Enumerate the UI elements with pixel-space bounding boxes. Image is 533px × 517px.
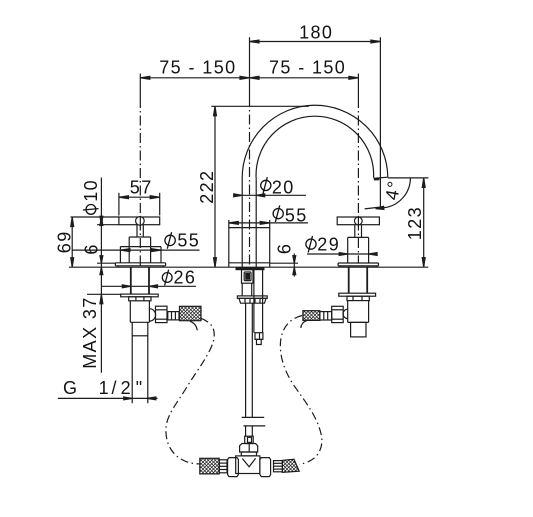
svg-text:": " [136, 378, 142, 398]
left escutcheon [120, 247, 161, 263]
label phi10 [83, 205, 99, 215]
svg-text:/: / [111, 378, 116, 398]
svg-text:1: 1 [99, 378, 109, 398]
dim 75-150 line [140, 76, 358, 79]
dim phi20 [234, 194, 306, 197]
extension line 180 right [379, 37, 381, 209]
svg-text:4°: 4° [382, 178, 405, 201]
left dims vertical line [100, 178, 102, 373]
right hose braid [303, 311, 320, 321]
dim 180 line [250, 40, 381, 43]
extension line left handle [139, 74, 141, 99]
left under body [130, 301, 149, 323]
right hose ferrule [320, 312, 332, 320]
svg-text:26: 26 [174, 267, 197, 287]
dim 6 right [270, 254, 298, 277]
T top nut [240, 444, 258, 453]
svg-text:2: 2 [121, 378, 131, 398]
left lock flange [121, 294, 159, 297]
deck line [69, 266, 428, 268]
left handle stem [136, 225, 138, 237]
spout outer arc [242, 105, 388, 179]
right handle bar [337, 217, 379, 225]
dim 57 [119, 193, 160, 216]
svg-text:55: 55 [285, 206, 308, 226]
svg-text:10: 10 [81, 179, 101, 202]
right hub centerline [357, 216, 359, 226]
dim G 1/2 [58, 397, 158, 400]
label phi29 [306, 236, 316, 253]
dim 222 [211, 106, 308, 267]
left hose ferrule [168, 312, 179, 320]
left inlet pipe [132, 322, 148, 403]
T body [236, 456, 260, 474]
dim phi10 extension lines [71, 216, 119, 225]
svg-text:6: 6 [275, 243, 295, 254]
dim 37 max [87, 294, 121, 304]
centerline left handle [139, 98, 141, 267]
right bottom stub [351, 322, 366, 337]
right handle hub [354, 217, 362, 225]
svg-text:75 - 150: 75 - 150 [159, 58, 236, 78]
dim 6 left [97, 256, 115, 275]
spout flange B [239, 298, 266, 303]
left base plate [115, 263, 165, 267]
right hose bend tick [301, 321, 307, 328]
left hose braid [180, 306, 202, 320]
label phi55 spout [273, 205, 283, 222]
spout riser tube [241, 179, 243, 267]
bottom right braid [282, 459, 299, 472]
dim phi26 [101, 285, 196, 288]
spout outlet face [373, 177, 387, 178]
centerline spout [249, 97, 251, 267]
spout supply tube [246, 303, 253, 436]
svg-text:6: 6 [82, 243, 102, 254]
spout side channel [254, 270, 263, 333]
T collar [241, 452, 256, 456]
right lock flange [339, 293, 376, 296]
spout outlet tick [374, 178, 379, 180]
left hose nut [156, 306, 168, 322]
right hose curve [280, 316, 322, 465]
dim 69 [71, 217, 74, 267]
svg-text:69: 69 [54, 230, 74, 253]
spout gasket [236, 268, 264, 270]
extension line spout center top [249, 37, 251, 97]
right valve body [348, 237, 369, 263]
centerline right handle [357, 98, 359, 263]
left outlet boss [149, 309, 155, 321]
T left nut [228, 458, 239, 477]
label phi20 [261, 177, 271, 194]
label phi55 left [165, 232, 175, 249]
right lock nut [347, 296, 369, 300]
svg-text:20: 20 [272, 178, 295, 198]
right hose nut [332, 306, 344, 322]
T right rings [274, 461, 283, 472]
svg-text:MAX 37: MAX 37 [80, 296, 100, 368]
left handle hub [136, 217, 145, 226]
svg-text:29: 29 [317, 234, 340, 254]
spout flange A [237, 296, 267, 299]
T small fitting [245, 436, 254, 443]
svg-text:57: 57 [130, 178, 153, 198]
svg-text:123: 123 [405, 206, 425, 240]
svg-text:G: G [63, 378, 77, 398]
right outlet boss [343, 309, 348, 318]
right under body [348, 301, 369, 323]
label phi26 [162, 270, 172, 286]
right handle stem [354, 225, 356, 238]
svg-text:75 - 150: 75 - 150 [269, 58, 346, 78]
spout stem under deck [242, 283, 252, 296]
pipe break lines [242, 417, 266, 426]
left hose bend tick [190, 321, 197, 330]
left valve body [129, 237, 150, 263]
left hose curve [166, 318, 214, 464]
dim 123 [388, 178, 429, 267]
svg-text:222: 222 [197, 170, 217, 204]
spout base cylinder [229, 220, 270, 267]
svg-text:180: 180 [299, 23, 333, 43]
left hub centerline [139, 216, 141, 226]
T left rings [219, 460, 227, 473]
extension line right handle [357, 74, 359, 99]
svg-text:55: 55 [177, 231, 200, 251]
right valve shank [348, 267, 350, 293]
T right nut [260, 458, 271, 477]
left lock nut [129, 297, 151, 301]
dim phi29 [307, 253, 378, 256]
dim phi55 spout [229, 221, 308, 224]
spout inner arc [256, 116, 374, 179]
left valve shank [130, 267, 132, 294]
left handle bar [119, 217, 160, 225]
spout stud block [242, 270, 254, 284]
spout channel box [255, 333, 263, 345]
bottom left braid [200, 458, 219, 474]
dim 4 degrees [365, 178, 411, 210]
right base plate [338, 263, 378, 267]
dim phi55 left [72, 249, 199, 252]
